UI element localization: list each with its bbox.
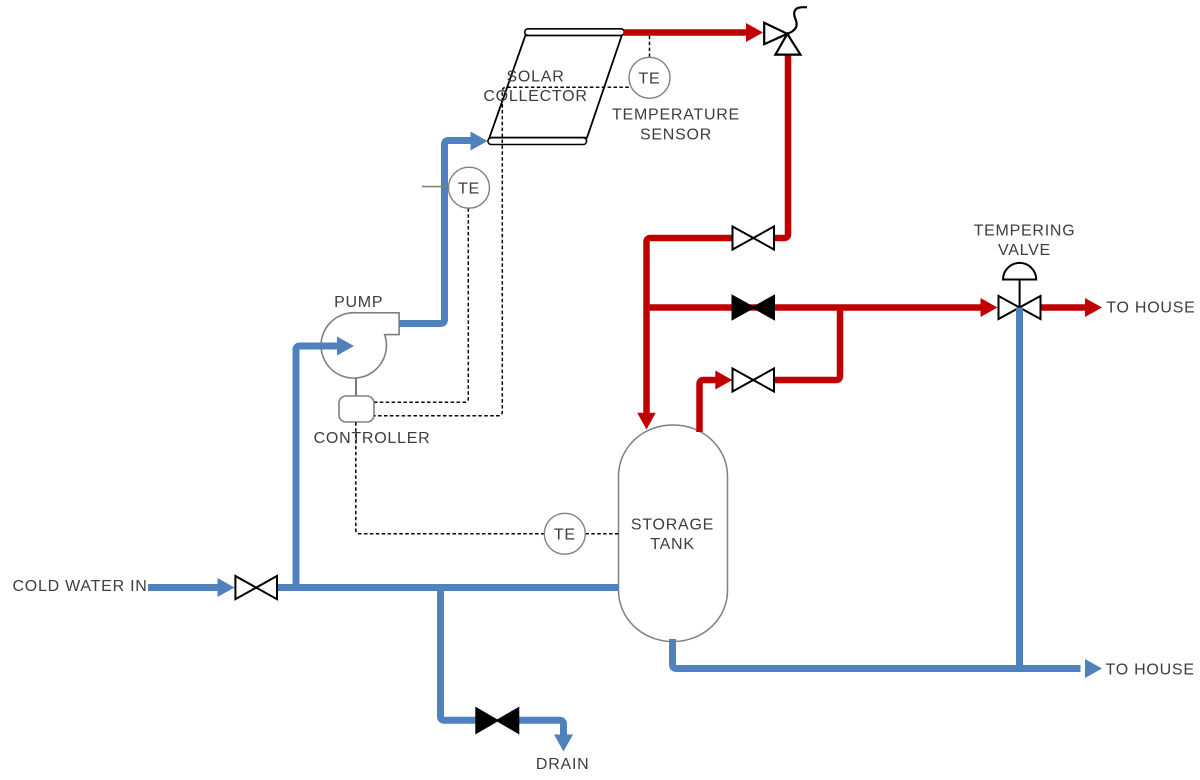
signal: controller to TE3	[356, 422, 544, 534]
wire collector to relief valve	[624, 29, 748, 36]
svg-text:CONTROLLER: CONTROLLER	[314, 430, 431, 447]
controller	[339, 396, 374, 422]
arrow into collector	[471, 132, 488, 151]
arrow to house top	[1085, 298, 1102, 317]
svg-text:STORAGE: STORAGE	[631, 517, 714, 534]
TE3 tank sensor	[544, 513, 585, 554]
arrow into tempering valve	[981, 298, 998, 317]
tempering valve stem	[1019, 280, 1021, 307]
wire tempering valve cold feed	[1016, 308, 1023, 669]
signal: TE3 to tank	[585, 533, 618, 535]
wire cold main to tank	[278, 584, 620, 591]
wire drain run	[441, 588, 478, 721]
arrow into valve V3	[715, 371, 732, 390]
dashed signal lines	[356, 36, 650, 534]
arrow into tank top	[637, 413, 656, 430]
blue arrowheads	[218, 132, 1103, 752]
arrow into cold valve	[218, 578, 235, 597]
wire tank bottom to house	[673, 639, 1081, 669]
svg-text:PUMP: PUMP	[334, 294, 383, 311]
wire valve V3 to hot main	[774, 308, 840, 381]
svg-text:SOLAR: SOLAR	[507, 69, 565, 86]
solar collector body	[489, 35, 621, 137]
svg-text:TEMPERATURE: TEMPERATURE	[612, 107, 740, 124]
signal: TE2 to controller	[375, 208, 469, 402]
storage tank	[619, 425, 728, 642]
arrow into pump	[337, 337, 354, 356]
svg-text:COLLECTOR: COLLECTOR	[483, 88, 587, 105]
solar collector top header	[525, 29, 625, 36]
wire hot main to tempering valve	[647, 304, 983, 311]
arrow to house bottom	[1085, 659, 1102, 678]
svg-text:SENSOR: SENSOR	[640, 127, 712, 144]
svg-text:TANK: TANK	[650, 536, 694, 553]
wire: cold water main (blue)	[148, 141, 1081, 736]
red arrowheads	[637, 23, 1102, 430]
TE2 tap line	[422, 186, 449, 188]
wire tempering valve to house	[1041, 304, 1086, 311]
wire valve V1 to tank top	[647, 238, 734, 414]
valve V4 cold water (open)	[235, 576, 277, 599]
wire riser to pump	[296, 346, 338, 588]
svg-text:TEMPERING: TEMPERING	[974, 223, 1076, 240]
solar collector bottom header	[488, 138, 587, 145]
wire relief valve down to valve V1	[774, 52, 788, 238]
svg-text:TO HOUSE: TO HOUSE	[1106, 300, 1195, 317]
wire pump outlet to collector	[399, 141, 472, 324]
valve V5 drain (closed, filled)	[476, 708, 518, 732]
signal: TE1 to controller	[375, 87, 629, 415]
pump P1	[321, 313, 399, 378]
svg-text:TE: TE	[458, 180, 480, 197]
tempering valve body	[999, 296, 1041, 319]
wire: hot loop (red)	[624, 33, 1086, 433]
signal: red pipe to TE1	[649, 36, 651, 57]
wire tank hot outlet	[700, 380, 717, 432]
svg-text:VALVE: VALVE	[998, 242, 1051, 259]
svg-text:DRAIN: DRAIN	[536, 756, 590, 773]
valve V2 bypass (closed, filled)	[733, 296, 775, 319]
svg-text:TE: TE	[639, 71, 661, 88]
relief valve squiggle	[787, 7, 807, 34]
pump-controller stem	[355, 378, 357, 396]
svg-text:TO HOUSE: TO HOUSE	[1106, 662, 1195, 679]
tempering valve actuator dome	[1003, 263, 1036, 280]
svg-text:COLD WATER IN: COLD WATER IN	[13, 578, 148, 595]
arrow drain down	[554, 735, 573, 752]
relief valve body	[764, 23, 800, 55]
TE1 collector sensor	[629, 57, 670, 98]
wire cold water inlet	[148, 584, 218, 591]
arrow into relief valve	[746, 23, 763, 42]
TE2 pipe sensor	[449, 167, 490, 208]
valve V3 hot outlet (open)	[733, 369, 775, 392]
tempering valve cold feed overlay	[1016, 308, 1023, 322]
valve V1 hot (open)	[733, 227, 775, 250]
svg-text:TE: TE	[554, 527, 576, 544]
